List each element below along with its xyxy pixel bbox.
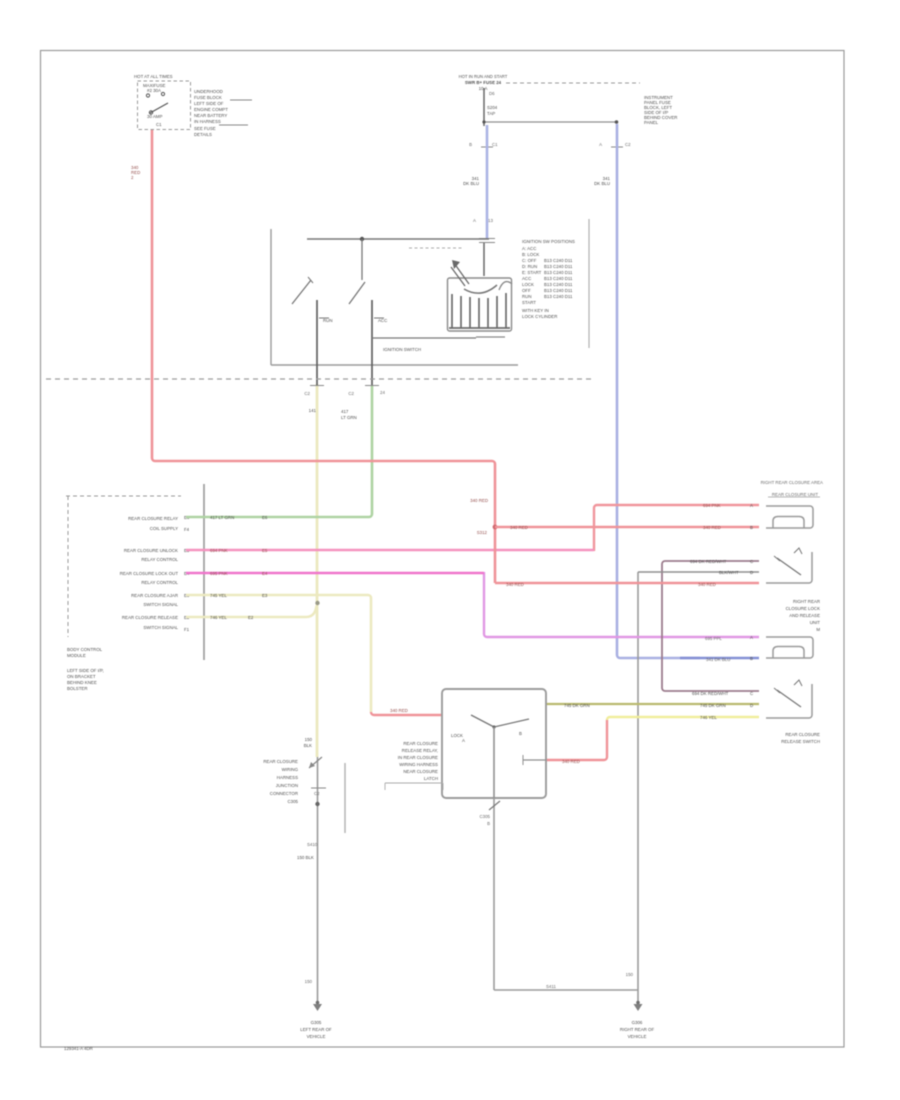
ignition switch box right edge	[588, 219, 590, 348]
svg-text:24: 24	[380, 390, 385, 395]
svg-text:B: B	[519, 731, 522, 736]
svg-text:694 PNK: 694 PNK	[210, 548, 228, 553]
svg-text:WIRING HARNESS: WIRING HARNESS	[399, 762, 438, 767]
svg-text:E6: E6	[262, 515, 268, 520]
svg-text:DETAILS: DETAILS	[194, 132, 212, 137]
svg-text:IGNITION SWITCH: IGNITION SWITCH	[383, 347, 421, 352]
connector line C2 left module	[203, 484, 205, 660]
svg-text:RUN: RUN	[323, 318, 333, 323]
svg-text:694 DK RED/WHT: 694 DK RED/WHT	[690, 559, 727, 564]
GROUPS	[131, 74, 252, 180]
wire PNK vertical riser	[594, 505, 759, 551]
svg-text:340 RED: 340 RED	[562, 759, 580, 764]
svg-text:IN HARNESS: IN HARNESS	[194, 119, 221, 124]
svg-text:REAR CLOSURE UNIT: REAR CLOSURE UNIT	[772, 492, 818, 497]
svg-text:LEFT SIDE OF: LEFT SIDE OF	[194, 101, 224, 106]
svg-text:START: START	[522, 300, 536, 305]
connector line short mid	[344, 763, 346, 833]
contact RUN	[316, 300, 318, 385]
underhood fuse block dashed box	[138, 81, 191, 130]
svg-text:S411: S411	[546, 984, 556, 989]
svg-text:FUSE BLOCK: FUSE BLOCK	[194, 95, 222, 100]
release switch 2 blade	[777, 690, 801, 707]
svg-text:ACC: ACC	[378, 318, 387, 323]
svg-text:WITH KEY IN: WITH KEY IN	[522, 308, 549, 313]
svg-text:REAR CLOSURE RELEASE: REAR CLOSURE RELEASE	[122, 615, 178, 620]
rotary right hook	[499, 282, 512, 290]
svg-text:HOT AT ALL TIMES: HOT AT ALL TIMES	[134, 74, 173, 79]
svg-text:DK BLU: DK BLU	[594, 181, 610, 186]
svg-text:AND RELEASE: AND RELEASE	[789, 613, 820, 618]
svg-text:REAR CLOSURE AJAR: REAR CLOSURE AJAR	[131, 593, 178, 598]
actuator 2 body	[766, 637, 813, 658]
relay switch arms	[471, 715, 494, 727]
svg-text:D: D	[750, 703, 753, 708]
svg-text:SWR B+ FUSE 24: SWR B+ FUSE 24	[465, 80, 502, 85]
wire YEL row5	[186, 606, 317, 617]
wire DK BLU long vertical	[617, 124, 700, 658]
svg-text:694 PNK: 694 PNK	[703, 503, 721, 508]
rotary switch outline	[448, 278, 512, 331]
junction nub	[615, 120, 619, 124]
svg-text:C1: C1	[492, 142, 498, 147]
svg-text:ON BRACKET: ON BRACKET	[67, 674, 96, 679]
internal bus	[307, 238, 489, 240]
svg-text:LEFT SIDE OF I/P,: LEFT SIDE OF I/P,	[67, 668, 104, 673]
wire PPL vertical drop	[484, 572, 759, 637]
wire RED branch upper	[495, 526, 759, 528]
svg-text:694 DK RED/WHT: 694 DK RED/WHT	[692, 691, 729, 696]
rotary key lever	[451, 263, 469, 286]
svg-text:REAR CLOSURE UNLOCK: REAR CLOSURE UNLOCK	[124, 548, 178, 553]
svg-text:B: B	[469, 142, 472, 147]
dashed fuse block line	[506, 82, 640, 84]
svg-text:A: A	[462, 738, 465, 743]
module dashed box left	[67, 496, 69, 637]
svg-text:S410: S410	[307, 842, 318, 847]
svg-text:LATCH: LATCH	[424, 776, 438, 781]
yellow-to-black connector arrow	[309, 757, 322, 768]
wire RED branch lower	[495, 582, 759, 584]
connector tick pair at ignition box entry	[479, 239, 495, 243]
inline connector slash	[489, 801, 500, 810]
svg-text:RELEASE SWITCH: RELEASE SWITCH	[781, 739, 820, 744]
svg-text:REAR CLOSURE RELAY: REAR CLOSURE RELAY	[128, 516, 178, 521]
svg-text:746 YEL: 746 YEL	[700, 715, 717, 720]
svg-text:C2: C2	[314, 791, 320, 796]
svg-text:BEHIND KNEE: BEHIND KNEE	[67, 680, 97, 685]
svg-text:COIL SUPPLY: COIL SUPPLY	[150, 526, 178, 531]
svg-text:UNIT: UNIT	[810, 620, 821, 625]
svg-text:BODY CONTROL: BODY CONTROL	[67, 647, 103, 652]
wire BLK vertical to ground G200	[317, 757, 319, 1003]
svg-text:D: RUN B13 C240 D11: D: RUN B13 C240 D11	[522, 264, 573, 269]
splice dot S	[493, 525, 498, 530]
svg-text:CONNECTOR: CONNECTOR	[270, 791, 298, 796]
relay box	[442, 689, 546, 798]
svg-text:695 PPL: 695 PPL	[705, 636, 722, 641]
svg-text:OFF B13 C240 D11: OFF B13 C240 D11	[522, 288, 573, 293]
svg-text:340 RED: 340 RED	[390, 708, 408, 713]
svg-text:JUNCTION: JUNCTION	[276, 783, 298, 788]
svg-text:RELEASE RELAY,: RELEASE RELAY,	[402, 748, 438, 753]
svg-text:745 DK GRN: 745 DK GRN	[564, 703, 590, 708]
svg-text:WIRING: WIRING	[282, 767, 299, 772]
svg-text:REAR CLOSURE LOCK OUT: REAR CLOSURE LOCK OUT	[120, 571, 179, 576]
svg-text:SEE FUSE: SEE FUSE	[194, 126, 216, 131]
svg-text:F1: F1	[184, 627, 190, 632]
svg-text:SWITCH SIGNAL: SWITCH SIGNAL	[143, 625, 178, 630]
svg-text:E: START B13 C240 D11: E: START B13 C240 D11	[522, 270, 573, 275]
svg-text:129341-A 4DR: 129341-A 4DR	[64, 1046, 93, 1051]
actuator 2 winding arch	[773, 647, 804, 659]
svg-text:S204: S204	[487, 105, 498, 110]
wire DK RED U-link between switches	[662, 561, 759, 691]
svg-text:A: ACC: A: ACC	[522, 246, 536, 251]
svg-text:D6: D6	[489, 91, 495, 96]
svg-text:150 BLK: 150 BLK	[297, 855, 314, 860]
circuit breaker symbol	[150, 103, 168, 113]
svg-text:13: 13	[488, 218, 493, 223]
svg-text:A: A	[473, 218, 476, 223]
wire stub ignition feed	[483, 243, 485, 276]
connector ticks blue wires	[481, 146, 623, 148]
svg-text:S312: S312	[477, 530, 488, 535]
svg-text:C305: C305	[480, 814, 491, 819]
relay output vertical	[493, 798, 495, 990]
leader line	[230, 99, 252, 101]
svg-text:NEAR CLOSURE: NEAR CLOSURE	[403, 769, 438, 774]
connector ticks below box	[310, 385, 379, 387]
lock switch 1 bracket	[766, 552, 812, 583]
svg-text:340 RED: 340 RED	[470, 498, 488, 503]
actuator 1 body	[766, 506, 813, 528]
svg-text:B: B	[487, 821, 490, 826]
svg-text:IGNITION SW POSITIONS: IGNITION SW POSITIONS	[522, 239, 575, 244]
svg-text:TAP: TAP	[487, 111, 495, 116]
fuse element	[146, 94, 149, 97]
svg-text:REAR CLOSURE: REAR CLOSURE	[785, 732, 820, 737]
svg-text:REAR CLOSURE: REAR CLOSURE	[263, 759, 298, 764]
svg-text:VEHICLE: VEHICLE	[307, 1034, 326, 1039]
leader line 2	[219, 124, 248, 126]
svg-text:BLK: BLK	[304, 743, 312, 748]
svg-text:A: A	[750, 635, 753, 640]
svg-text:BOLSTER: BOLSTER	[67, 686, 88, 691]
svg-text:BLK/WHT: BLK/WHT	[719, 570, 739, 575]
wire RED into relay box	[371, 712, 442, 715]
svg-text:E5: E5	[262, 548, 268, 553]
svg-text:RIGHT REAR CLOSURE AREA: RIGHT REAR CLOSURE AREA	[761, 480, 823, 485]
wire YEL row4	[186, 595, 371, 712]
wire DK BLU vertical to ignition switch	[486, 125, 489, 238]
svg-text:2: 2	[131, 175, 134, 180]
svg-text:RELAY CONTROL: RELAY CONTROL	[141, 557, 178, 562]
svg-text:HOT IN RUN AND START: HOT IN RUN AND START	[459, 74, 508, 79]
svg-text:REAR CLOSURE: REAR CLOSURE	[403, 741, 438, 746]
svg-text:B: B	[750, 525, 753, 530]
svg-text:VEHICLE: VEHICLE	[628, 1034, 647, 1039]
svg-text:340 RED: 340 RED	[510, 525, 528, 530]
switch blade 2 with stub	[361, 239, 363, 280]
module dashed box top	[66, 495, 181, 497]
svg-text:MODULE: MODULE	[67, 653, 86, 658]
svg-text:HARNESS: HARNESS	[277, 775, 298, 780]
underbrace	[385, 783, 443, 790]
feed wire	[483, 88, 485, 126]
wire PNK row2	[186, 549, 594, 552]
svg-text:340 RED: 340 RED	[698, 582, 716, 587]
svg-text:B: B	[750, 656, 753, 661]
wire YEL to release switch	[607, 717, 759, 720]
actuator 1 top line	[768, 496, 820, 498]
svg-text:F4: F4	[184, 527, 190, 532]
svg-text:417 LT GRN: 417 LT GRN	[210, 515, 234, 520]
svg-text:C1: C1	[156, 122, 162, 127]
svg-text:C: C	[750, 559, 753, 564]
junction bus dot	[360, 237, 364, 241]
wire YEL vertical from ignition RUN contact	[316, 384, 319, 757]
ignition switch box left edge	[270, 229, 272, 365]
svg-text:E4: E4	[262, 571, 268, 576]
relay internal stub	[523, 759, 546, 761]
svg-text:NEAR BATTERY: NEAR BATTERY	[194, 113, 227, 118]
connector tick C	[311, 787, 326, 789]
svg-text:IN REAR CLOSURE: IN REAR CLOSURE	[398, 755, 438, 760]
ground symbol left G200	[316, 1001, 320, 1005]
dashed divider	[409, 247, 462, 249]
svg-text:RIGHT REAR OF: RIGHT REAR OF	[620, 1027, 655, 1032]
svg-text:B: LOCK: B: LOCK	[522, 252, 539, 257]
release switch 2 bracket	[766, 684, 812, 718]
rotary contact hatch	[452, 293, 506, 328]
svg-text:141: 141	[309, 408, 317, 413]
release switch 2 arrow	[794, 680, 802, 686]
svg-text:150: 150	[305, 737, 313, 742]
ignition switch box bottom edge	[271, 364, 518, 366]
svg-text:PANEL: PANEL	[644, 120, 659, 125]
connector plane dashed C2	[46, 378, 592, 380]
rotary under-line	[476, 336, 505, 338]
svg-text:E2: E2	[248, 615, 254, 620]
svg-text:D: D	[750, 570, 753, 575]
svg-text:746 YEL: 746 YEL	[210, 615, 227, 620]
svg-text:UNDERHOOD: UNDERHOOD	[194, 89, 223, 94]
svg-text:745 DK GRN: 745 DK GRN	[700, 703, 726, 708]
svg-text:C: C	[750, 691, 753, 696]
svg-text:695 PNK: 695 PNK	[210, 571, 228, 576]
svg-text:C305: C305	[288, 799, 299, 804]
svg-text:G305: G305	[311, 1020, 322, 1025]
svg-text:340 RED: 340 RED	[703, 525, 721, 530]
svg-text:LEFT REAR OF: LEFT REAR OF	[300, 1027, 332, 1032]
svg-text:RUN B13 C240 D11: RUN B13 C240 D11	[522, 294, 573, 299]
ground bus horizontal	[494, 989, 638, 991]
switch blade 1	[292, 280, 311, 304]
svg-text:341 DK BLU: 341 DK BLU	[706, 657, 730, 662]
svg-text:417: 417	[341, 409, 349, 414]
lock switch 1 blade	[777, 558, 801, 575]
svg-text:150: 150	[626, 972, 634, 977]
svg-text:C: OFF B13 C240 D11: C: OFF B13 C240 D11	[522, 258, 573, 263]
svg-text:LT GRN: LT GRN	[341, 415, 357, 420]
junction dot right ground	[636, 1001, 640, 1005]
svg-text:E3: E3	[262, 593, 268, 598]
svg-text:10 A: 10 A	[479, 86, 488, 91]
wire RED main feed	[152, 130, 495, 583]
svg-text:#2 30A: #2 30A	[147, 88, 161, 93]
svg-text:CLOSURE LOCK: CLOSURE LOCK	[786, 606, 820, 611]
svg-text:RIGHT REAR: RIGHT REAR	[793, 599, 820, 604]
svg-text:A: A	[750, 503, 753, 508]
link ACC to rotary	[372, 337, 476, 339]
wire RED from relay to yellow	[546, 720, 607, 760]
branch to right	[484, 121, 617, 123]
lock switch 1 arrow	[794, 548, 802, 554]
rotary bottom band	[449, 327, 510, 329]
svg-text:LOCK CYLINDER: LOCK CYLINDER	[522, 314, 557, 319]
rotary cam bowl arc	[464, 285, 497, 293]
svg-text:SWITCH SIGNAL: SWITCH SIGNAL	[143, 602, 178, 607]
svg-text:LOCK B13 C240 D11: LOCK B13 C240 D11	[522, 282, 573, 287]
svg-text:DK BLU: DK BLU	[463, 181, 479, 186]
wire PNK row3	[186, 572, 484, 575]
svg-text:ACC B13 C240 D11: ACC B13 C240 D11	[522, 276, 573, 281]
ground symbol right G301	[634, 1004, 643, 1011]
svg-text:A: A	[599, 142, 602, 147]
wire OLV from relay box	[546, 703, 759, 705]
rotary key lever arrowhead	[452, 260, 460, 269]
wire LT GRN row1	[186, 386, 372, 517]
svg-text:C2: C2	[625, 142, 631, 147]
svg-text:G306: G306	[632, 1020, 643, 1025]
svg-text:C2: C2	[348, 391, 354, 396]
svg-text:30 AMP: 30 AMP	[147, 114, 162, 119]
relay common vertical	[493, 727, 495, 798]
svg-text:M: M	[816, 627, 820, 632]
svg-text:ENGINE COMPT: ENGINE COMPT	[194, 107, 228, 112]
svg-text:RELAY CONTROL: RELAY CONTROL	[141, 580, 178, 585]
contact ACC	[371, 300, 373, 385]
wire BLK long vertical right to ground	[637, 572, 639, 1003]
svg-text:150: 150	[305, 979, 313, 984]
splice dot S	[315, 802, 319, 806]
svg-text:745 YEL: 745 YEL	[210, 593, 227, 598]
svg-text:C2: C2	[304, 391, 310, 396]
actuator 1 winding arch	[773, 517, 804, 529]
wire GRY to lock switch	[638, 571, 759, 573]
svg-text:340 RED: 340 RED	[506, 582, 524, 587]
